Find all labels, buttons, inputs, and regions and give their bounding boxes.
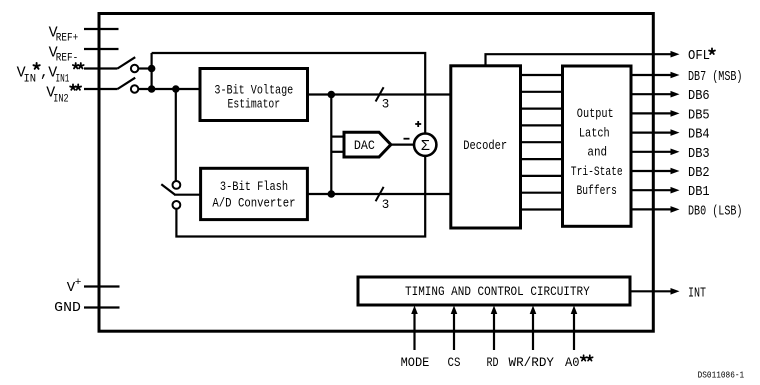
svg-text:+: + <box>75 277 82 289</box>
arrowhead WR/RDY <box>530 306 537 315</box>
output DB0 wire <box>631 208 672 210</box>
wire SW1 contact to node A <box>138 67 151 69</box>
pin VREF+ stub <box>84 28 119 30</box>
pin VIN/VIN1 label <box>17 65 70 86</box>
switch SW3 arm <box>161 184 175 194</box>
arrowhead CS <box>451 306 458 315</box>
block Output Latch and Tri-State Buffers <box>563 66 632 226</box>
chip boundary U1 <box>99 14 653 332</box>
wire decoder-latch rung 4 <box>521 124 563 126</box>
svg-text:TIMING AND CONTROL CIRCUITRY: TIMING AND CONTROL CIRCUITRY <box>405 285 590 299</box>
wire decoder-latch rung 5 <box>521 141 563 143</box>
svg-text:DB4: DB4 <box>688 127 710 143</box>
svg-text:INT: INT <box>688 285 706 301</box>
wire estimator output bus to decoder <box>308 93 451 95</box>
svg-text:Tri-State: Tri-State <box>571 164 623 179</box>
svg-text:DB6: DB6 <box>688 88 710 104</box>
svg-text:3-Bit Voltage: 3-Bit Voltage <box>214 82 293 97</box>
arrowhead RD <box>491 306 498 315</box>
svg-text:REF+: REF+ <box>56 33 78 45</box>
pin V+ label <box>67 277 82 296</box>
wire node C down to SW3 upper contact <box>175 89 177 181</box>
output DB3 wire <box>631 151 672 153</box>
arrowhead DB3 <box>671 149 680 156</box>
wire SW2 contact to node B and estimator input <box>138 88 200 90</box>
wire flash output bus to decoder <box>307 193 450 195</box>
arrowhead DB5 <box>671 110 680 117</box>
svg-text:DB1: DB1 <box>688 184 710 200</box>
svg-text:3-Bit Flash: 3-Bit Flash <box>220 179 288 194</box>
wire DAC output to summer minus input <box>391 144 414 146</box>
svg-text:Decoder: Decoder <box>463 138 507 153</box>
pin VIN2 stub <box>84 88 118 90</box>
svg-text:Latch: Latch <box>579 125 610 140</box>
arrowhead A0 <box>571 306 578 315</box>
wire SW3 pole to flash converter input <box>174 194 201 196</box>
svg-text:3: 3 <box>382 198 390 212</box>
summer (sigma) circle <box>414 134 436 156</box>
control input WR/RDY wire <box>532 312 534 350</box>
svg-text:DB0 (LSB): DB0 (LSB) <box>688 203 743 219</box>
arrowhead MODE <box>411 306 418 315</box>
control input CS wire <box>453 312 455 350</box>
bus slash mark bottom <box>376 187 384 201</box>
wire decoder-latch rung 9 <box>521 208 563 210</box>
block TIMING AND CONTROL CIRCUITRY <box>358 277 630 305</box>
svg-text:WR/RDY: WR/RDY <box>509 356 555 370</box>
svg-text:IN2: IN2 <box>53 94 68 106</box>
wire DAC input stub upper <box>331 136 344 138</box>
wire node A to node B vertical <box>151 53 153 89</box>
svg-text:RD: RD <box>487 356 499 370</box>
output DB5 wire <box>631 112 672 114</box>
arrowhead DB0 <box>671 206 680 213</box>
control input MODE wire <box>413 312 415 350</box>
arrowhead DB4 <box>671 129 680 136</box>
DAC block <box>344 132 391 157</box>
svg-text:3: 3 <box>382 97 390 111</box>
output DB2 wire <box>631 170 672 172</box>
svg-text:and: and <box>587 145 607 160</box>
node B junction dot <box>148 85 156 93</box>
arrowhead DB1 <box>671 187 680 194</box>
node D junction dot on estimator bus <box>328 91 336 99</box>
wire summer output feedback to SW3 lower contact <box>176 156 425 237</box>
wire decoder-latch rung 3 <box>521 107 563 109</box>
svg-text:CS: CS <box>448 356 461 370</box>
switch SW3 (flash input select) upper contact circle <box>173 181 181 189</box>
svg-text:GND: GND <box>54 300 81 316</box>
arrowhead INT <box>671 288 680 295</box>
svg-text:DB2: DB2 <box>688 165 710 181</box>
switch SW1 (VIN1 input) arm <box>118 57 136 68</box>
svg-text:A0: A0 <box>565 356 580 370</box>
wire timing block to INT output <box>630 290 672 292</box>
svg-text:Σ: Σ <box>421 138 430 155</box>
wire decoder-latch rung 1 <box>521 74 563 76</box>
svg-text:DB7 (MSB): DB7 (MSB) <box>688 69 743 85</box>
svg-text:A/D Converter: A/D Converter <box>212 195 295 210</box>
pin GND stub <box>84 306 120 308</box>
switch SW2 contact circle <box>131 85 138 92</box>
pin VREF+ label <box>49 25 79 45</box>
minus sign at summer input <box>404 138 410 140</box>
pin V+ stub <box>84 285 120 287</box>
block Decoder <box>451 66 521 228</box>
wire decoder to OFL output <box>486 54 672 66</box>
svg-text:DB3: DB3 <box>688 146 710 162</box>
block 3-Bit Flash A/D Converter <box>201 168 308 219</box>
output DB1 wire <box>631 189 672 191</box>
wire decoder-latch rung 6 <box>521 158 563 160</box>
pin VREF- label <box>49 45 79 65</box>
node A junction dot <box>148 65 156 73</box>
svg-text:Output: Output <box>577 106 614 121</box>
node C junction dot on VIN2 line <box>172 85 179 92</box>
wire decoder-latch rung 7 <box>521 175 563 177</box>
switch SW1 contact circle <box>131 65 138 72</box>
svg-text:MODE: MODE <box>401 356 430 370</box>
svg-text:IN: IN <box>24 74 37 86</box>
block 3-Bit Voltage Estimator <box>200 69 308 121</box>
svg-text:OFL: OFL <box>688 48 710 64</box>
output DB6 wire <box>631 93 672 95</box>
wire node D down to DAC and node E <box>330 95 332 195</box>
wire analog input top run to summer <box>152 53 426 134</box>
wire decoder-latch rung 2 <box>521 91 563 93</box>
bus slash mark top <box>376 87 384 101</box>
svg-text:REF-: REF- <box>56 53 78 65</box>
control input RD wire <box>493 312 495 350</box>
output DB7 wire <box>631 74 672 76</box>
switch SW2 (VIN2 input) arm <box>118 78 136 89</box>
switch SW3 lower contact circle <box>173 201 181 209</box>
output DB4 wire <box>631 132 672 134</box>
pin VIN2 label <box>46 85 68 106</box>
arrowhead DB7 <box>671 72 680 79</box>
svg-text:Estimator: Estimator <box>228 97 281 112</box>
pin VIN/VIN1 stub <box>84 67 118 69</box>
pin VREF- stub <box>84 48 119 50</box>
arrowhead OFL <box>671 51 680 58</box>
control input A0 wire <box>573 312 575 350</box>
svg-text:DAC: DAC <box>354 138 375 153</box>
plus sign at summer input <box>415 121 421 127</box>
svg-text:Buffers: Buffers <box>577 183 617 198</box>
wire DAC input stub lower <box>331 151 344 153</box>
node E junction dot on flash bus <box>328 190 336 198</box>
svg-text:DB5: DB5 <box>688 107 710 123</box>
arrowhead DB6 <box>671 91 680 98</box>
arrowhead DB2 <box>671 168 680 175</box>
svg-text:IN1: IN1 <box>56 74 70 86</box>
wire decoder-latch rung 8 <box>521 192 563 194</box>
svg-text:DS011086-1: DS011086-1 <box>698 371 745 381</box>
